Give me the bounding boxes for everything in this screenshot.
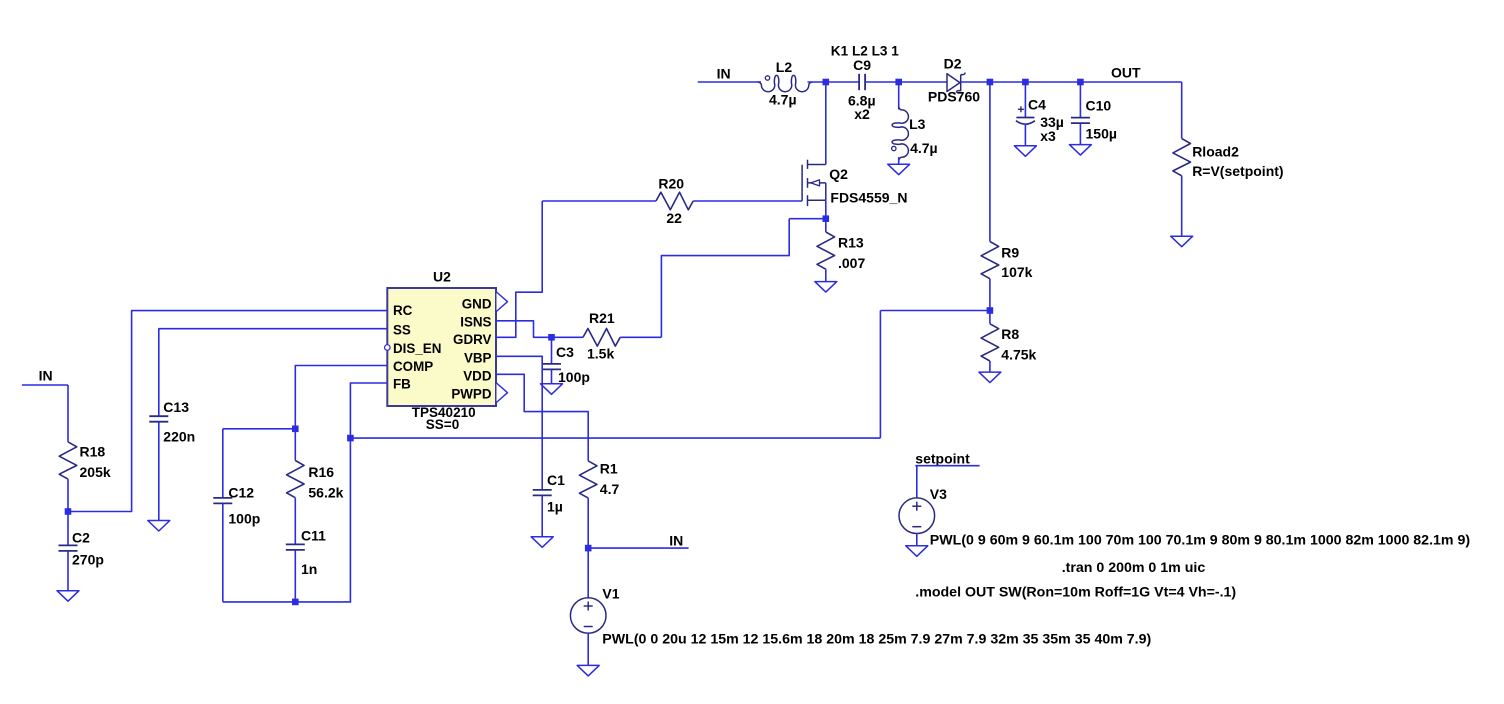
svg-text:C9: C9 (853, 57, 871, 73)
svg-text:U2: U2 (433, 268, 451, 284)
svg-text:100p: 100p (558, 369, 590, 385)
svg-text:V1: V1 (602, 585, 619, 601)
svg-text:x2: x2 (854, 106, 870, 122)
svg-text:Q2: Q2 (829, 166, 848, 182)
svg-text:C12: C12 (228, 485, 254, 501)
svg-text:R13: R13 (838, 234, 864, 250)
svg-text:4.7µ: 4.7µ (910, 140, 938, 156)
svg-text:R8: R8 (1001, 326, 1019, 342)
svg-text:PWL(0 0 20u 12 15m 12 15.6m 18: PWL(0 0 20u 12 15m 12 15.6m 18 20m 18 25… (602, 632, 1151, 648)
svg-text:OUT: OUT (1111, 65, 1141, 81)
svg-text:ISNS: ISNS (460, 314, 491, 329)
svg-text:D2: D2 (944, 56, 962, 72)
svg-text:R9: R9 (1001, 245, 1019, 261)
svg-text:GDRV: GDRV (453, 332, 492, 347)
svg-text:L2: L2 (776, 59, 793, 75)
svg-text:220n: 220n (163, 429, 195, 445)
svg-text:.007: .007 (838, 255, 865, 271)
svg-text:C10: C10 (1086, 98, 1112, 114)
svg-text:R20: R20 (658, 175, 684, 191)
svg-text:Rload2: Rload2 (1192, 144, 1239, 160)
svg-text:1n: 1n (301, 561, 317, 577)
svg-text:.model OUT SW(Ron=10m Roff=1G: .model OUT SW(Ron=10m Roff=1G Vt=4 Vh=-.… (915, 584, 1236, 600)
svg-text:DIS_EN: DIS_EN (393, 341, 441, 356)
svg-text:x3: x3 (1040, 128, 1056, 144)
svg-text:R21: R21 (589, 310, 615, 326)
svg-text:FB: FB (393, 377, 411, 392)
svg-text:150µ: 150µ (1086, 126, 1117, 142)
svg-text:4.7µ: 4.7µ (769, 91, 797, 107)
svg-text:1µ: 1µ (547, 499, 563, 515)
svg-text:SS: SS (393, 322, 411, 337)
svg-text:VDD: VDD (463, 368, 492, 383)
svg-text:GND: GND (462, 297, 492, 312)
svg-text:RC: RC (393, 303, 413, 318)
svg-text:205k: 205k (80, 464, 111, 480)
svg-text:SS=0: SS=0 (426, 417, 459, 432)
svg-text:1.5k: 1.5k (587, 346, 614, 362)
svg-text:L3: L3 (909, 116, 926, 132)
svg-text:R1: R1 (600, 461, 618, 477)
svg-text:FDS4559_N: FDS4559_N (830, 190, 907, 206)
svg-text:PWPD: PWPD (451, 387, 492, 402)
svg-text:270p: 270p (72, 552, 104, 568)
svg-text:.tran 0 200m 0 1m uic: .tran 0 200m 0 1m uic (1062, 560, 1206, 576)
svg-text:C13: C13 (163, 399, 189, 415)
svg-text:100p: 100p (228, 511, 260, 527)
svg-text:C4: C4 (1028, 96, 1046, 112)
svg-text:C3: C3 (556, 344, 574, 360)
svg-text:IN: IN (717, 66, 731, 82)
svg-text:R18: R18 (80, 444, 106, 460)
svg-text:C1: C1 (547, 472, 565, 488)
svg-text:4.75k: 4.75k (1001, 347, 1036, 363)
svg-text:22: 22 (666, 210, 682, 226)
svg-text:V3: V3 (930, 486, 947, 502)
svg-text:COMP: COMP (393, 359, 433, 374)
svg-text:56.2k: 56.2k (308, 485, 343, 501)
svg-text:4.7: 4.7 (600, 481, 620, 497)
svg-text:C11: C11 (301, 528, 326, 544)
svg-text:PWL(0 9 60m 9 60.1m 100 70m 10: PWL(0 9 60m 9 60.1m 100 70m 100 70.1m 9 … (930, 533, 1471, 549)
svg-text:VBP: VBP (464, 350, 492, 365)
svg-text:setpoint: setpoint (915, 451, 970, 467)
svg-text:R=V(setpoint): R=V(setpoint) (1192, 163, 1283, 179)
svg-text:C2: C2 (72, 529, 90, 545)
svg-text:107k: 107k (1001, 264, 1032, 280)
svg-text:IN: IN (669, 533, 683, 549)
svg-text:R16: R16 (308, 464, 334, 480)
svg-text:IN: IN (39, 368, 53, 384)
svg-text:PDS760: PDS760 (928, 89, 980, 105)
